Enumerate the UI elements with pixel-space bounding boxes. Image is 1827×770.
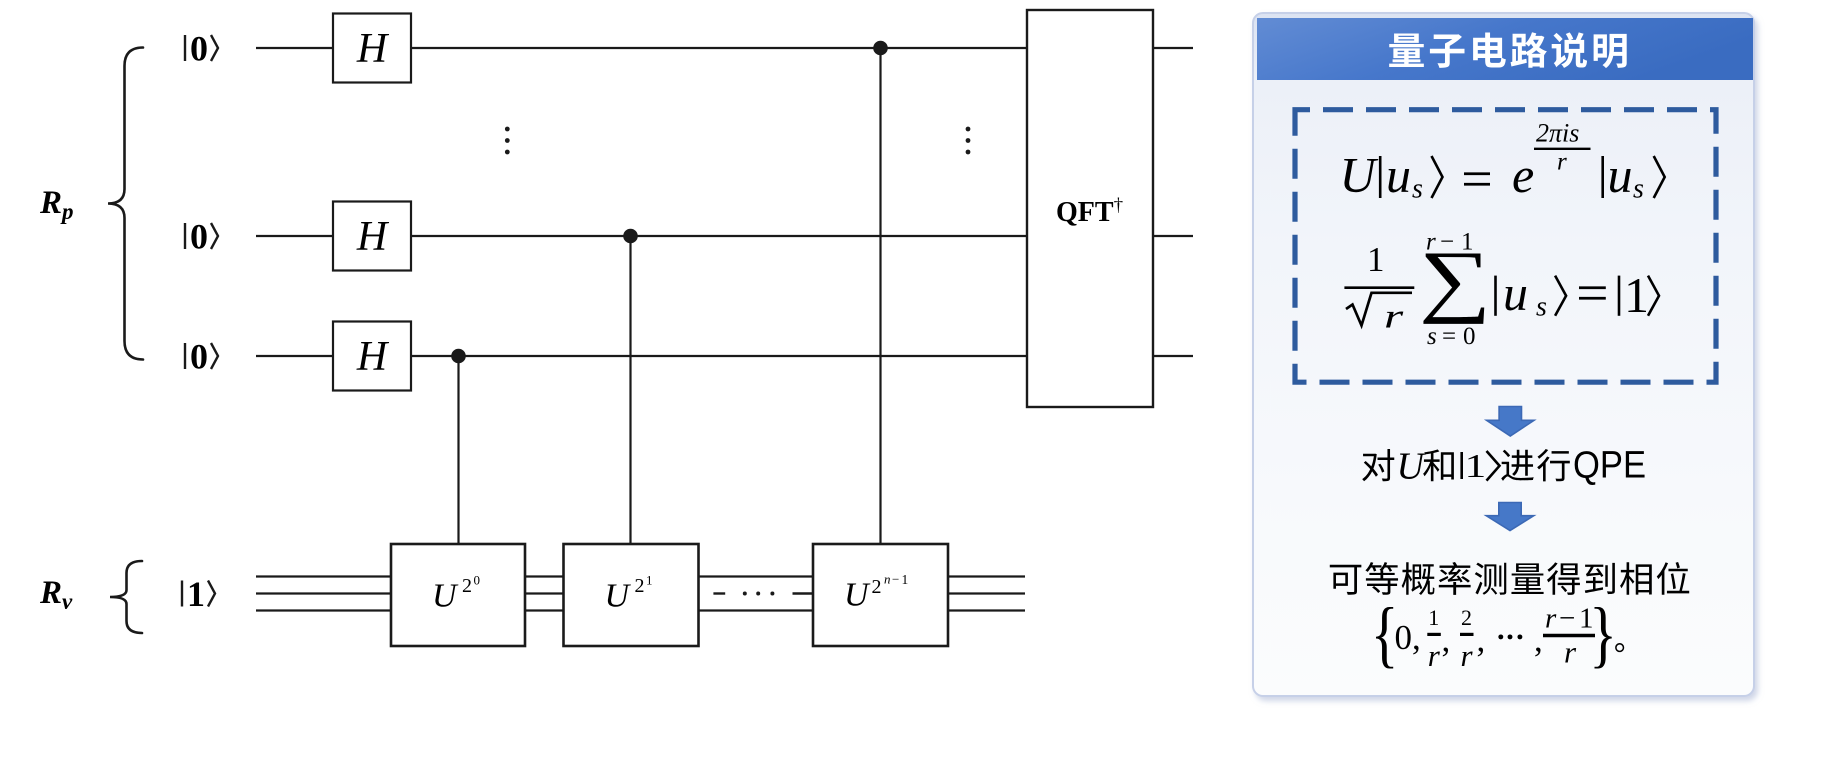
wire qubit 2 right segment [1153,235,1193,237]
brace Rv register [110,561,142,633]
svg-text:U: U [605,577,632,614]
svg-text:2: 2 [462,575,472,597]
bus lines right of U^2^n-1 [948,575,1025,577]
vertical ellipsis left [505,127,510,132]
svg-text:1: 1 [187,574,205,614]
svg-text:s: s [1412,174,1423,205]
svg-text:U: U [844,577,871,614]
svg-text:H: H [356,334,390,380]
svg-text:H: H [356,26,390,72]
wire qubit 3 left segment [256,355,333,357]
svg-text:n: n [884,572,891,587]
svg-text:u: u [1503,265,1528,321]
svg-text:s: s [1427,323,1437,350]
svg-text:0: 0 [190,217,208,257]
svg-text:U: U [1340,147,1379,203]
svg-text:0: 0 [1463,323,1476,350]
svg-text:2: 2 [635,575,645,597]
svg-text:−: − [892,572,899,587]
text line QPE [1362,449,1394,481]
control wire U^2^n-1 [879,48,881,544]
bus lines left of U^2^0 [256,575,391,577]
ket |1> register Rv [181,581,183,607]
control dot qubit 2 [623,229,638,244]
svg-text:1: 1 [1367,240,1385,279]
wire qubit 2 left segment [256,235,333,237]
brace Rp register [108,48,143,360]
wire qubit 3 middle segment [411,355,1027,357]
ket |0> qubit 1 [184,35,186,61]
control wire U^2^0 [457,356,459,544]
control dot qubit 1 [873,41,888,56]
svg-text:=: = [1442,323,1456,350]
ket |0> qubit 3 [184,343,186,369]
svg-text:0: 0 [190,29,208,69]
svg-text:r: r [1545,603,1557,635]
svg-text:0: 0 [474,573,481,588]
wire qubit 1 right segment [1153,47,1193,49]
svg-text:U: U [432,577,459,614]
panel header bar [1257,18,1753,80]
svg-text:s: s [1536,292,1547,323]
control wire U^2^1 [629,236,631,544]
ellipsis dashes and dots between U gates [713,592,725,594]
svg-text:}: } [1589,594,1617,675]
svg-text:,: , [1534,620,1543,659]
svg-text:u: u [1386,147,1411,203]
bus top line between U^2^1 and U^2^n-1 [699,575,814,577]
wire qubit 1 left segment [256,47,333,49]
text line phases [1330,565,1362,595]
arrow down 2 [1486,503,1534,531]
gate U^2^n-1 [813,544,948,646]
ket |0> qubit 2 [184,223,186,249]
gate H qubit 3 [333,322,411,391]
gate U^2^0 [391,544,525,646]
svg-text:1: 1 [1428,605,1439,630]
svg-text:2πis: 2πis [1536,119,1579,148]
svg-text:r: r [1564,635,1577,670]
svg-text:0: 0 [190,337,208,377]
svg-text:,: , [1412,618,1421,657]
gate U^2^1 [564,544,699,646]
svg-text:1: 1 [1465,447,1487,484]
svg-text:s: s [1633,174,1644,205]
arrow down 1 [1487,407,1535,437]
svg-text:u: u [1608,147,1633,203]
gate H qubit 2 [333,202,411,271]
bus lines between U^2^0 and U^2^1 [525,575,564,577]
svg-text:2: 2 [872,576,882,598]
wire qubit 2 middle segment [411,235,1027,237]
svg-text:1: 1 [1624,267,1649,323]
control dot qubit 3 [451,349,466,364]
svg-text:−: − [1559,603,1575,635]
svg-text:r: r [1384,298,1404,336]
svg-text:1: 1 [902,572,909,587]
svg-text:U: U [1397,446,1427,488]
gate H qubit 1 [333,14,411,83]
svg-text:r: r [1461,638,1474,673]
wire qubit 3 right segment [1153,355,1193,357]
wire qubit 1 middle segment [411,47,1027,49]
panel header title [1389,33,1424,67]
vertical ellipsis right [966,127,971,132]
svg-text:,: , [1477,620,1486,659]
svg-text:r: r [1428,638,1441,673]
svg-text:0: 0 [1395,618,1413,657]
svg-text:QFT†: QFT† [1056,195,1123,228]
svg-text:2: 2 [1461,605,1472,630]
ideographic full stop [1615,643,1624,652]
svg-text:1: 1 [646,573,653,588]
svg-text:H: H [356,214,390,260]
svg-text:,: , [1442,620,1451,659]
bus bottom line between U^2^1 and U^2^n-1 [699,609,814,611]
svg-text:e: e [1512,147,1534,203]
panel card background [1253,13,1754,696]
svg-text:∑: ∑ [1419,234,1491,324]
svg-text:QPE: QPE [1573,445,1646,487]
svg-text:r: r [1557,148,1567,175]
gate QFT dagger [1027,10,1153,407]
dashed formula box [1295,110,1716,383]
